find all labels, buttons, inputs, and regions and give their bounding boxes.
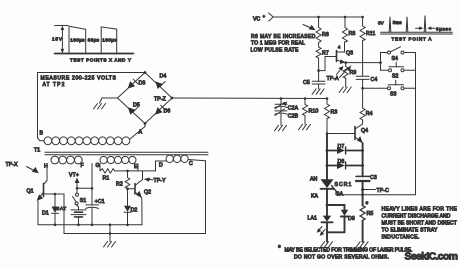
capacitor C4 [356, 76, 377, 83]
svg-text:VC: VC [253, 17, 261, 23]
node R10 top [304, 97, 307, 100]
resistor R10 [303, 99, 319, 125]
node C1-rail [91, 224, 94, 227]
wire G lead [99, 164, 101, 171]
ground R10 [299, 124, 311, 130]
wire H lead [44, 164, 48, 185]
diode D8 [326, 159, 364, 169]
resistor R2 [116, 171, 130, 189]
wire Q1 emitter down [37, 201, 39, 225]
svg-text:HEAVY LINES ARE FOR THE: HEAVY LINES ARE FOR THE [382, 207, 458, 213]
svg-text:D1: D1 [42, 211, 49, 217]
svg-text:*: * [278, 245, 281, 252]
wire R11 down to C4 [362, 41, 364, 77]
svg-text:C2A: C2A [288, 106, 299, 112]
diode D5 [128, 103, 140, 115]
arrow TP-Y [144, 178, 166, 185]
svg-text:R6: R6 [322, 32, 329, 38]
svg-text:LA1: LA1 [308, 216, 318, 222]
node R11 top [361, 16, 364, 19]
ground C2 [275, 125, 287, 131]
svg-text:TP-C: TP-C [377, 188, 390, 194]
resistor R6 [316, 17, 329, 43]
svg-text:T1: T1 [34, 148, 40, 154]
svg-text:CURRENT DISCHARGE AND: CURRENT DISCHARGE AND [382, 214, 451, 220]
svg-text:Q3: Q3 [346, 51, 353, 57]
svg-text:E: E [134, 164, 138, 170]
svg-text:R4: R4 [366, 111, 373, 117]
diode D7 [326, 144, 364, 154]
svg-text:SCR1: SCR1 [335, 182, 352, 188]
ground R5 [356, 242, 368, 248]
node gate wire junction [361, 193, 364, 196]
svg-text:C4: C4 [371, 77, 378, 83]
svg-text:S2: S2 [392, 74, 399, 80]
wire A lead from bridge bottom to winding [130, 124, 145, 140]
node Q1 base / D1 [54, 193, 57, 196]
svg-text:R3: R3 [331, 110, 338, 116]
svg-text:MEASURE 200-225 VOLTS: MEASURE 200-225 VOLTS [41, 76, 117, 82]
svg-text:TO 1 MEG FOR REAL: TO 1 MEG FOR REAL [251, 41, 305, 47]
wire F lead [91, 164, 93, 189]
transformer T1 primary winding B-A [44, 137, 130, 145]
arrow note to R6 [303, 25, 316, 31]
arrow VT+ supply [75, 178, 80, 189]
svg-text:6μsec: 6μsec [436, 26, 452, 31]
caption TEST POINT A [392, 37, 433, 42]
svg-text:R1: R1 [103, 175, 110, 181]
wire junction to Q3 base [319, 57, 337, 71]
ground main [104, 234, 116, 248]
svg-text:15V: 15V [52, 37, 63, 42]
node C2 top [280, 97, 283, 100]
diode D9 [327, 205, 355, 232]
node R2 top [126, 170, 129, 173]
svg-text:4: 4 [338, 45, 341, 50]
capacitor C2A variable [275, 99, 299, 112]
svg-text:D: D [159, 163, 163, 169]
diode D4 [155, 74, 166, 90]
SCR1 [310, 177, 352, 200]
resistor R7 [316, 43, 329, 59]
resistor R9 variable [340, 63, 357, 87]
svg-text:R9: R9 [350, 70, 357, 76]
svg-text:TEST POINTS X AND Y: TEST POINTS X AND Y [70, 58, 131, 63]
capacitor C1 [86, 188, 105, 225]
watermark SeekIC.com [405, 251, 459, 263]
switch S4 [381, 47, 416, 63]
svg-text:160μs: 160μs [102, 37, 117, 42]
note R6 MAY BE INCREASED [251, 34, 316, 53]
wire right rail to SCR gate [339, 53, 416, 195]
switch S3 pushbutton [388, 80, 416, 97]
diode D3 [128, 79, 146, 88]
node bottom of bridge [144, 122, 147, 125]
svg-text:D2: D2 [131, 208, 138, 214]
svg-text:C2B: C2B [288, 114, 299, 120]
arrow VC+ supply [269, 13, 274, 21]
wire Q1 base return to lower rail [63, 194, 65, 234]
svg-text:D3: D3 [139, 81, 146, 87]
svg-text:3V: 3V [378, 21, 385, 26]
wire lower return rail [64, 161, 206, 234]
svg-text:TO ELIMINATE STRAY: TO ELIMINATE STRAY [382, 228, 439, 234]
resistor R5 with asterisk [360, 195, 373, 242]
switch S1 [73, 188, 87, 205]
svg-text:5ms: 5ms [393, 20, 403, 25]
waveform test points X and Y [55, 26, 134, 54]
node R6 top [317, 16, 320, 19]
node rail-ground stub [109, 224, 112, 235]
svg-text:R5: R5 [367, 211, 374, 217]
svg-text:SeekIC.com: SeekIC.com [405, 251, 459, 263]
diode D1 [42, 194, 59, 225]
note MEASURE 200-225 VOLTS AT TP2 [41, 76, 117, 89]
wire TP-Z output rail [172, 97, 327, 100]
svg-text:TP-Y: TP-Y [154, 178, 167, 184]
ground at bridge [94, 104, 106, 110]
node Q3 emitter junction [344, 61, 381, 64]
transformer T1 core [45, 152, 208, 154]
svg-text:D5: D5 [133, 103, 140, 109]
wire upper ground rail [38, 224, 142, 226]
svg-text:+C1: +C1 [95, 199, 105, 205]
svg-text:INDUCTANCE.: INDUCTANCE. [382, 235, 420, 241]
wire bridge left node to ground [100, 98, 118, 103]
svg-text:R2: R2 [116, 181, 123, 187]
svg-text:+: + [263, 14, 266, 19]
node TP-C [361, 188, 389, 194]
svg-text:C: C [189, 161, 193, 167]
label VT+ [69, 173, 79, 179]
svg-text:S1: S1 [80, 198, 87, 204]
label 160us pulse1 [70, 37, 85, 42]
node Q2 base [126, 187, 135, 190]
arrow TP-X [27, 167, 39, 174]
svg-text:AT TP2: AT TP2 [43, 82, 65, 88]
diode bridge wires [118, 73, 173, 124]
label T1 [34, 148, 40, 154]
wire D lead [156, 161, 167, 171]
winding G-E [96, 156, 139, 170]
label VC+ [253, 14, 266, 23]
capacitor C5 [303, 71, 325, 89]
diode D2 [124, 189, 137, 226]
node TP-Z right of bridge [154, 96, 173, 102]
transistor Q3 [337, 42, 354, 64]
svg-text:TP-A: TP-A [327, 76, 340, 82]
svg-text:F: F [81, 163, 84, 169]
svg-text:TEST POINT A: TEST POINT A [392, 37, 433, 42]
wire Q4 emitter rail down [362, 143, 364, 176]
svg-text:TP-X: TP-X [6, 162, 19, 168]
label TP-A with arrow [327, 66, 344, 82]
svg-text:R8: R8 [349, 31, 356, 37]
battery BAT [56, 205, 86, 225]
node VT junction [76, 187, 94, 190]
ground LA1 [321, 232, 333, 247]
wire Q2 emitter down [141, 198, 143, 225]
wire VC+ rail [273, 16, 362, 18]
svg-text:VT+: VT+ [69, 173, 79, 179]
svg-text:D6: D6 [164, 109, 171, 115]
transistor Q2 [135, 171, 151, 198]
diode D6 [155, 105, 170, 114]
svg-text:B: B [40, 131, 44, 137]
label 160us pulse2 [102, 37, 117, 42]
svg-text:R10: R10 [309, 109, 319, 115]
svg-text:MAY BE SELECTED FOR TRIMMING O: MAY BE SELECTED FOR TRIMMING OF LASER PU… [285, 248, 413, 254]
transistor Q4 [355, 123, 368, 144]
label 15V [52, 37, 63, 42]
footnote asterisk note [278, 245, 413, 261]
svg-text:R7: R7 [322, 51, 329, 57]
wire box from winding B up to bridge (with note) [38, 73, 146, 141]
svg-text:A: A [139, 130, 143, 136]
svg-text:AN: AN [310, 177, 318, 183]
label 63us gap [88, 37, 100, 42]
resistor R11 [360, 17, 375, 41]
capacitor C3 [356, 175, 377, 195]
waveform test point A [378, 16, 452, 35]
resistor R1 [100, 169, 115, 182]
wire C lead to rail [188, 159, 205, 161]
svg-text:D7: D7 [338, 144, 345, 150]
svg-text:R6 MAY BE INCREASED: R6 MAY BE INCREASED [251, 34, 316, 40]
svg-text:Q4: Q4 [361, 128, 368, 134]
wire R1 to E/D node [115, 170, 156, 172]
svg-text:S4: S4 [392, 56, 399, 62]
svg-text:BAT: BAT [56, 206, 66, 211]
svg-text:S3: S3 [390, 92, 397, 98]
resistor R3 [325, 97, 338, 133]
svg-text:D8: D8 [338, 159, 345, 165]
svg-text:Q1: Q1 [27, 189, 34, 195]
node Q4 base [326, 132, 355, 135]
wire E lead [137, 164, 139, 171]
node D1-rail [54, 224, 57, 227]
caption TEST POINTS X AND Y [70, 58, 131, 63]
node BAT-rail [77, 224, 80, 227]
svg-text:R11: R11 [366, 31, 375, 37]
svg-text:160μs: 160μs [70, 37, 85, 42]
node R8 top [344, 16, 347, 19]
ground C5 [312, 89, 324, 95]
svg-text:KA: KA [311, 194, 319, 200]
wire C4 bottom to S3 and R4 [361, 79, 387, 107]
resistor R8 [343, 17, 356, 42]
svg-text:DO NOT GO OVER SEVERAL OHMS.: DO NOT GO OVER SEVERAL OHMS. [294, 255, 389, 261]
note HEAVY LINES [382, 207, 458, 241]
label A [139, 130, 143, 136]
winding D-C [159, 155, 193, 168]
ground R9 [339, 87, 351, 93]
svg-text:D4: D4 [160, 74, 167, 80]
svg-text:63μs: 63μs [88, 37, 100, 42]
svg-text:MUST BE SHORT AND DIRECT: MUST BE SHORT AND DIRECT [382, 221, 458, 227]
node R7-C5 junction [317, 58, 320, 72]
svg-text:G: G [96, 163, 100, 169]
node top of bridge [144, 71, 147, 74]
wire SCR cathode down [326, 189, 329, 207]
svg-text:TP-Z: TP-Z [154, 96, 166, 102]
wire anode rail down [326, 134, 328, 180]
winding H-F [44, 156, 84, 169]
svg-text:GA: GA [336, 191, 344, 197]
label B [40, 131, 44, 137]
label TP-X [6, 162, 19, 168]
svg-text:Q2: Q2 [144, 190, 151, 196]
switch S2 pushbutton [381, 62, 416, 79]
svg-text:LOW PULSE RATE: LOW PULSE RATE [251, 47, 300, 53]
svg-text:*: * [366, 202, 369, 209]
capacitor C2B variable [275, 107, 299, 125]
svg-text:C3: C3 [370, 175, 377, 181]
resistor R4 [360, 107, 373, 123]
svg-text:C5: C5 [303, 80, 310, 86]
transistor Q1 [27, 184, 65, 201]
svg-text:D9: D9 [348, 216, 355, 222]
laser diode LA1 [308, 205, 333, 236]
